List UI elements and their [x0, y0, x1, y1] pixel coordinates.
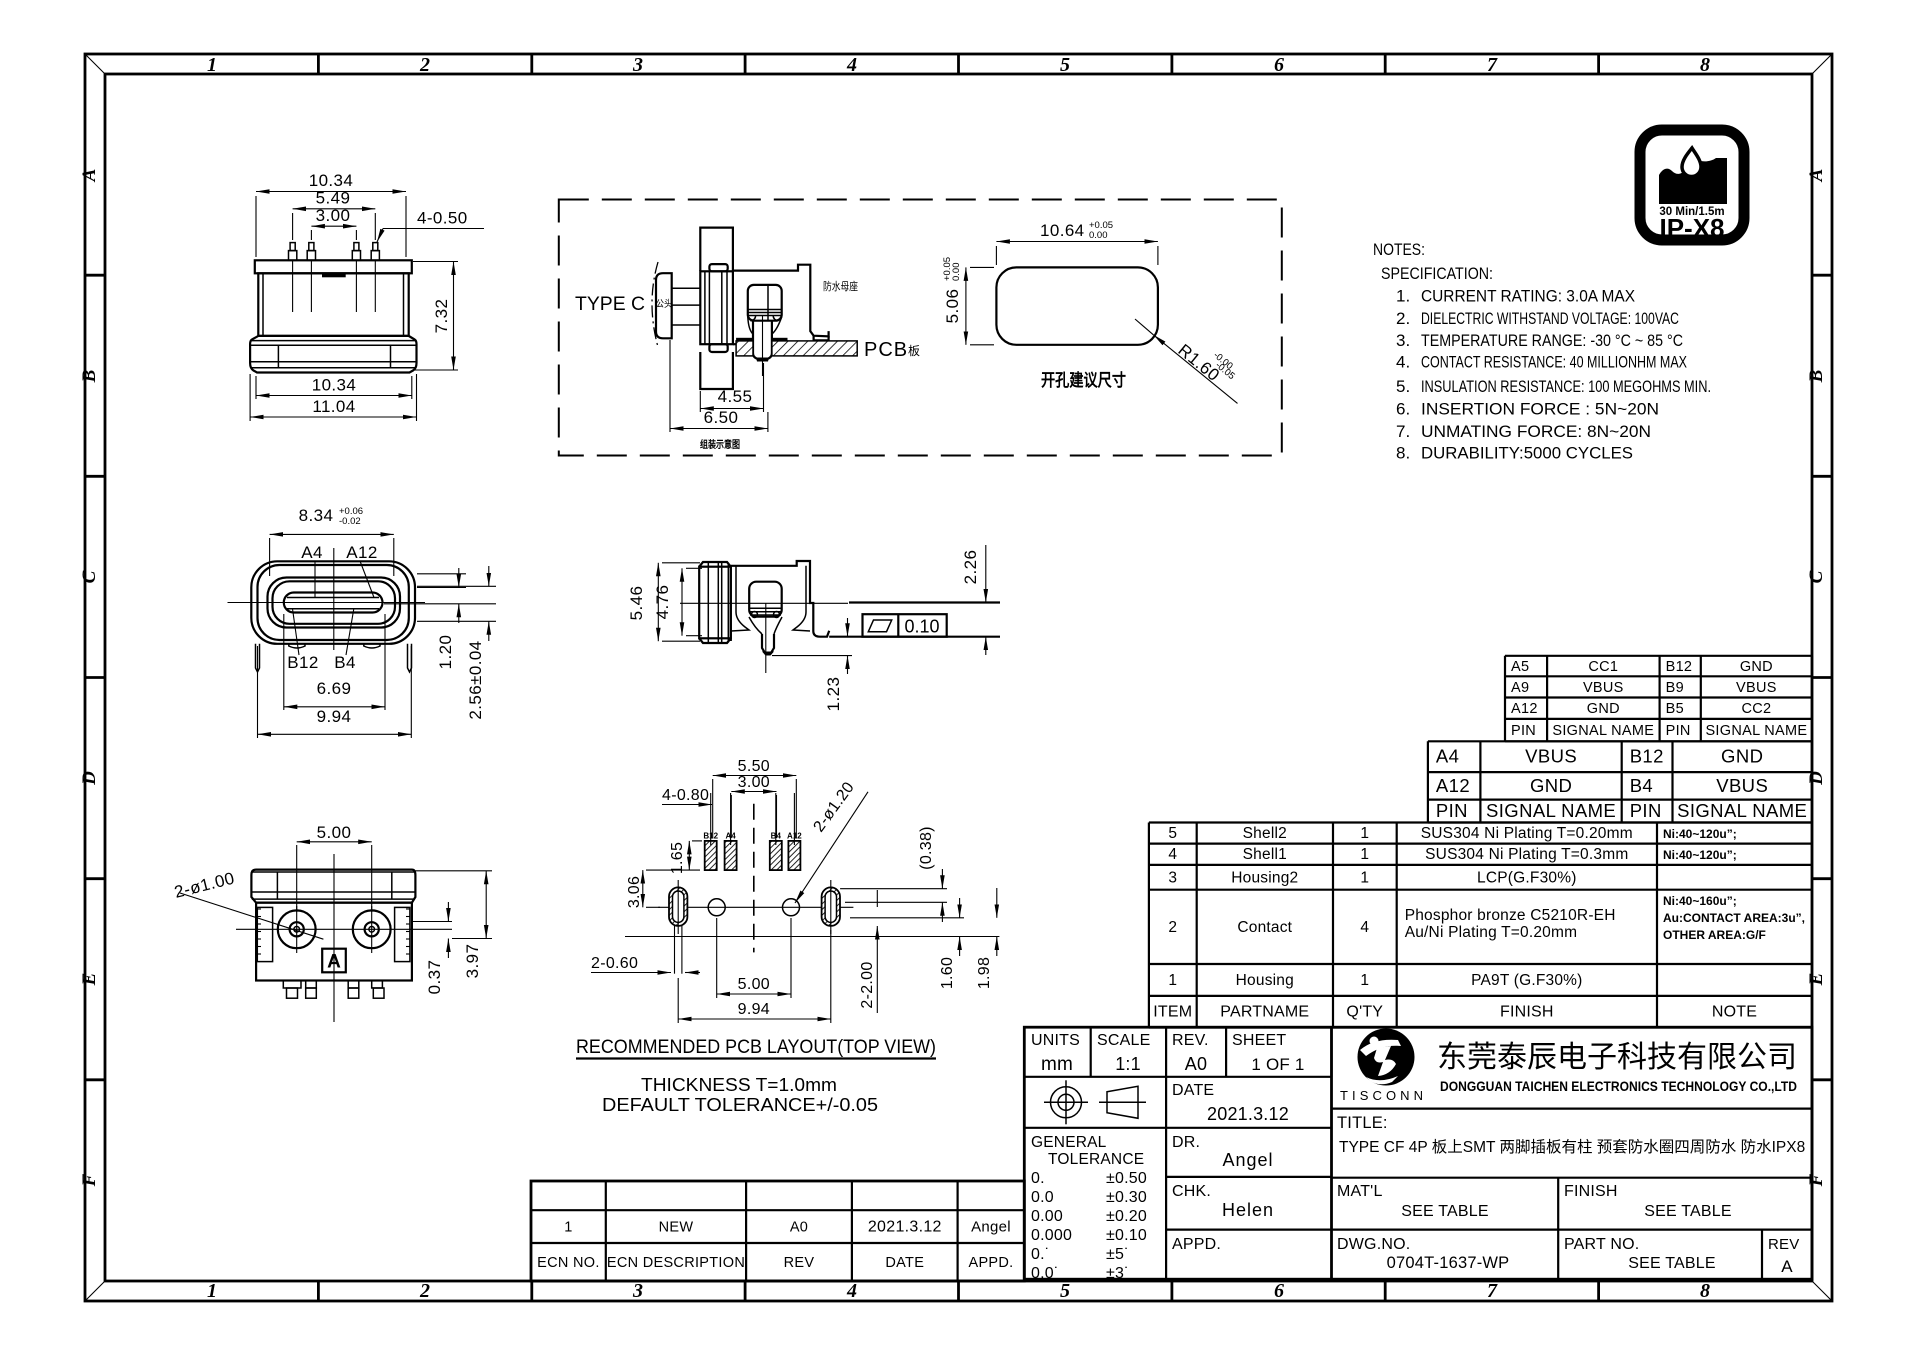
svg-text:B4: B4 — [334, 653, 356, 672]
svg-text:A12: A12 — [1511, 701, 1538, 717]
svg-text:CONTACT RESISTANCE: 40 MILLION: CONTACT RESISTANCE: 40 MILLIONHM MAX — [1421, 353, 1687, 372]
svg-text:NEW: NEW — [659, 1220, 694, 1236]
svg-text:5.: 5. — [1396, 377, 1410, 396]
svg-text:F: F — [1806, 1173, 1827, 1187]
svg-text:REV: REV — [1768, 1236, 1799, 1253]
svg-text:±3˙: ±3˙ — [1106, 1265, 1130, 1282]
view: assembly section (TYPE C plug + waterproof receptacle + PCB) — [559, 200, 1282, 456]
svg-text:5.50: 5.50 — [738, 758, 770, 775]
svg-text:DATE: DATE — [1172, 1082, 1214, 1099]
svg-text:3.00: 3.00 — [738, 774, 770, 791]
svg-text:4.55: 4.55 — [718, 387, 753, 406]
svg-text:1: 1 — [1360, 972, 1369, 989]
svg-text:0.00: 0.00 — [951, 263, 962, 282]
svg-text:DIELECTRIC WITHSTAND VOLTAGE:: DIELECTRIC WITHSTAND VOLTAGE: 100VAC — [1421, 309, 1679, 328]
svg-text:PIN: PIN — [1511, 723, 1536, 739]
svg-text:Ni:40~120u”;: Ni:40~120u”; — [1663, 827, 1737, 841]
svg-text:GND: GND — [1740, 659, 1773, 675]
svg-text:SCALE: SCALE — [1097, 1032, 1150, 1049]
svg-text:ECN DESCRIPTION: ECN DESCRIPTION — [607, 1255, 745, 1271]
svg-text:D: D — [79, 771, 100, 786]
svg-text:4: 4 — [1168, 846, 1177, 863]
svg-text:2-0.60: 2-0.60 — [591, 955, 638, 972]
svg-text:0704T-1637-WP: 0704T-1637-WP — [1387, 1254, 1510, 1272]
svg-text:±5˙: ±5˙ — [1106, 1246, 1130, 1263]
svg-text:7.: 7. — [1396, 422, 1410, 441]
svg-text:DEFAULT TOLERANCE+/-0.05: DEFAULT TOLERANCE+/-0.05 — [602, 1095, 878, 1115]
svg-text:4.: 4. — [1396, 353, 1410, 372]
svg-text:板: 板 — [908, 344, 920, 358]
svg-text:TEMPERATURE RANGE: -30 °C ~ 85: TEMPERATURE RANGE: -30 °C ~ 85 °C — [1421, 331, 1683, 350]
svg-text:B5: B5 — [1666, 701, 1684, 717]
svg-text:4: 4 — [1360, 919, 1369, 936]
svg-text:RECOMMENDED PCB LAYOUT(TOP: RECOMMENDED PCB LAYOUT(TOP VIEW) — [576, 1037, 936, 1058]
svg-text:DONGGUAN TAICHEN ELECTRONICS: DONGGUAN TAICHEN ELECTRONICS TECHNOLOGY … — [1440, 1079, 1797, 1094]
svg-text:3.06: 3.06 — [626, 876, 643, 908]
svg-text:0.37: 0.37 — [425, 960, 444, 995]
svg-text:8: 8 — [1700, 1280, 1710, 1302]
svg-text:B12: B12 — [1630, 746, 1664, 767]
svg-text:7: 7 — [1487, 1280, 1498, 1302]
notes specification text — [1373, 240, 1711, 462]
svg-text:VBUS: VBUS — [1583, 680, 1624, 696]
pin signal tables — [1428, 656, 1812, 823]
svg-text:APPD.: APPD. — [1172, 1236, 1221, 1253]
svg-text:10.64: 10.64 — [1040, 221, 1085, 240]
view: panel cut-out hole dimensions — [942, 220, 1238, 403]
svg-text:6: 6 — [1274, 1280, 1284, 1302]
svg-text:GND: GND — [1587, 701, 1620, 717]
svg-text:8.34: 8.34 — [299, 506, 334, 525]
svg-text:Housing2: Housing2 — [1231, 869, 1298, 886]
svg-text:SEE TABLE: SEE TABLE — [1644, 1203, 1731, 1220]
svg-text:5.06: 5.06 — [943, 289, 962, 324]
svg-text:1.98: 1.98 — [976, 957, 993, 989]
svg-text:VBUS: VBUS — [1525, 746, 1577, 767]
svg-text:SIGNAL NAME: SIGNAL NAME — [1677, 800, 1807, 821]
svg-text:9.94: 9.94 — [317, 707, 352, 726]
svg-text:CHK.: CHK. — [1172, 1183, 1211, 1200]
svg-text:CURRENT RATING: 3.0A MAX: CURRENT RATING: 3.0A MAX — [1421, 287, 1635, 306]
svg-text:5: 5 — [1168, 825, 1177, 842]
svg-text:A4: A4 — [1436, 746, 1459, 767]
svg-text:PCB: PCB — [864, 339, 908, 361]
svg-text:±0.50: ±0.50 — [1106, 1170, 1147, 1187]
svg-text:3: 3 — [632, 54, 643, 76]
svg-text:SEE TABLE: SEE TABLE — [1628, 1255, 1715, 1272]
svg-text:6.69: 6.69 — [317, 679, 352, 698]
svg-text:ECN NO.: ECN NO. — [537, 1255, 600, 1271]
svg-text:E: E — [1806, 973, 1827, 987]
svg-text:A: A — [1806, 169, 1827, 183]
svg-text:0.0˙: 0.0˙ — [1031, 1265, 1059, 1282]
svg-text:DURABILITY:5000 CYCLES: DURABILITY:5000 CYCLES — [1421, 443, 1633, 462]
svg-text:REV: REV — [784, 1255, 815, 1271]
svg-text:A0: A0 — [790, 1220, 808, 1236]
IP-X8 waterproof icon — [1640, 130, 1744, 243]
svg-text:LCP(G.F30%): LCP(G.F30%) — [1477, 869, 1577, 886]
svg-text:C: C — [79, 570, 100, 583]
svg-text:SEE TABLE: SEE TABLE — [1401, 1203, 1488, 1220]
svg-text:0.˙: 0.˙ — [1031, 1246, 1050, 1263]
svg-text:A4: A4 — [301, 543, 323, 562]
svg-text:防水母座: 防水母座 — [823, 279, 858, 293]
svg-text:APPD.: APPD. — [968, 1255, 1013, 1271]
svg-text:CC1: CC1 — [1588, 659, 1618, 675]
svg-text:1.20: 1.20 — [436, 635, 455, 670]
svg-text:CC2: CC2 — [1741, 701, 1771, 717]
svg-text:组装示意图: 组装示意图 — [700, 438, 740, 451]
svg-text:F: F — [79, 1173, 100, 1187]
svg-text:PART NO.: PART NO. — [1564, 1236, 1639, 1253]
svg-text:±0.10: ±0.10 — [1106, 1227, 1147, 1244]
TISCONN company logo — [1340, 1029, 1797, 1104]
svg-text:2021.3.12: 2021.3.12 — [868, 1219, 942, 1236]
svg-text:0.00: 0.00 — [1089, 230, 1108, 241]
svg-text:4.76: 4.76 — [653, 585, 672, 620]
svg-text:1.60: 1.60 — [939, 957, 956, 989]
svg-text:A: A — [79, 169, 100, 183]
svg-text:B: B — [1806, 370, 1827, 384]
svg-text:DR.: DR. — [1172, 1134, 1200, 1151]
svg-text:1: 1 — [207, 54, 217, 76]
svg-text:DWG.NO.: DWG.NO. — [1337, 1236, 1410, 1253]
svg-text:Phosphor bronze C5210R-EH: Phosphor bronze C5210R-EH — [1405, 907, 1616, 924]
svg-text:INSERTION FORCE : 5N~20N: INSERTION FORCE : 5N~20N — [1421, 400, 1659, 419]
svg-text:A9: A9 — [1511, 680, 1529, 696]
svg-text:Housing: Housing — [1236, 972, 1294, 989]
svg-text:Ni:40~160u”;: Ni:40~160u”; — [1663, 894, 1737, 908]
svg-text:FINISH: FINISH — [1564, 1183, 1618, 1200]
svg-text:VBUS: VBUS — [1736, 680, 1777, 696]
svg-text:0.000: 0.000 — [1031, 1227, 1072, 1244]
svg-text:1: 1 — [564, 1220, 572, 1236]
svg-text:1: 1 — [1360, 825, 1369, 842]
svg-text:Ni:40~120u”;: Ni:40~120u”; — [1663, 848, 1737, 862]
svg-text:A: A — [327, 952, 341, 973]
svg-text:TYPE CF 4P 板上SMT 两脚插板有柱 预套防水圈四: TYPE CF 4P 板上SMT 两脚插板有柱 预套防水圈四周防水 防水IPX8 — [1339, 1138, 1805, 1156]
svg-text:A12: A12 — [1436, 775, 1470, 796]
svg-text:东莞泰辰电子科技有限公司: 东莞泰辰电子科技有限公司 — [1437, 1041, 1797, 1074]
svg-text:3.00: 3.00 — [316, 206, 351, 225]
svg-text:GND: GND — [1721, 746, 1763, 767]
svg-text:PIN: PIN — [1666, 723, 1691, 739]
svg-text:2-2.00: 2-2.00 — [859, 961, 876, 1008]
svg-text:(0.38): (0.38) — [918, 826, 935, 870]
svg-text:C: C — [1806, 570, 1827, 583]
svg-text:GND: GND — [1530, 775, 1572, 796]
svg-text:±0.20: ±0.20 — [1106, 1208, 1147, 1225]
svg-text:Au:CONTACT AREA:3u”,: Au:CONTACT AREA:3u”, — [1663, 911, 1805, 925]
svg-text:8.: 8. — [1396, 443, 1410, 462]
svg-text:2.56±0.04: 2.56±0.04 — [466, 640, 485, 719]
svg-text:5.46: 5.46 — [627, 586, 646, 621]
ECN revision table — [531, 1181, 1024, 1281]
svg-text:4: 4 — [846, 54, 857, 76]
svg-text:10.34: 10.34 — [312, 376, 357, 395]
svg-text:A5: A5 — [1511, 659, 1529, 675]
svg-text:DATE: DATE — [885, 1255, 924, 1271]
svg-text:B9: B9 — [1666, 680, 1684, 696]
svg-text:TYPE C: TYPE C — [575, 294, 645, 315]
svg-text:PIN: PIN — [1630, 800, 1662, 821]
svg-text:3: 3 — [632, 1280, 643, 1302]
svg-text:1: 1 — [1360, 869, 1369, 886]
svg-text:Angel: Angel — [1222, 1150, 1273, 1170]
svg-text:1.23: 1.23 — [824, 677, 843, 712]
svg-text:2.: 2. — [1396, 309, 1410, 328]
svg-text:0.00: 0.00 — [1031, 1208, 1063, 1225]
svg-text:Shell1: Shell1 — [1243, 846, 1287, 863]
svg-text:11.04: 11.04 — [312, 397, 355, 416]
svg-text:PARTNAME: PARTNAME — [1220, 1004, 1309, 1021]
svg-text:Helen: Helen — [1222, 1200, 1274, 1220]
svg-text:TOLERANCE: TOLERANCE — [1048, 1151, 1144, 1168]
svg-text:NOTES:: NOTES: — [1373, 240, 1425, 259]
svg-text:4-0.80: 4-0.80 — [662, 787, 709, 804]
svg-text:6: 6 — [1274, 54, 1284, 76]
svg-text:SPECIFICATION:: SPECIFICATION: — [1381, 264, 1493, 283]
svg-text:UNITS: UNITS — [1031, 1032, 1080, 1049]
svg-text:TITLE:: TITLE: — [1337, 1114, 1388, 1132]
svg-text:0.0: 0.0 — [1031, 1189, 1054, 1206]
view: bottom view with locating posts — [172, 823, 492, 1022]
svg-text:10.34: 10.34 — [309, 171, 354, 190]
svg-text:SUS304 Ni Plating T=0.20m: SUS304 Ni Plating T=0.20mm — [1421, 825, 1633, 842]
svg-text:1 OF 1: 1 OF 1 — [1251, 1055, 1304, 1074]
svg-text:2: 2 — [419, 1280, 430, 1302]
svg-text:7: 7 — [1487, 54, 1498, 76]
svg-text:5: 5 — [1060, 1280, 1070, 1302]
svg-text:5: 5 — [1060, 54, 1070, 76]
svg-text:PIN: PIN — [1436, 800, 1468, 821]
svg-text:SIGNAL NAME: SIGNAL NAME — [1705, 723, 1807, 739]
svg-text:2021.3.12: 2021.3.12 — [1207, 1104, 1289, 1124]
svg-text:5.00: 5.00 — [317, 823, 352, 842]
svg-text:A: A — [1781, 1257, 1793, 1276]
svg-text:8: 8 — [1700, 54, 1710, 76]
svg-text:1: 1 — [1168, 972, 1177, 989]
view: front elevation of connector — [250, 171, 484, 421]
svg-text:B: B — [79, 370, 100, 384]
svg-text:B12: B12 — [287, 653, 318, 672]
svg-text:GENERAL: GENERAL — [1031, 1134, 1107, 1151]
svg-text:2.26: 2.26 — [961, 550, 980, 585]
svg-text:4: 4 — [846, 1280, 857, 1302]
svg-text:3.97: 3.97 — [463, 944, 482, 979]
svg-text:mm: mm — [1041, 1054, 1073, 1075]
svg-text:INSULATION RESISTANCE: 100 MEG: INSULATION RESISTANCE: 100 MEGOHMS MIN. — [1421, 377, 1711, 396]
svg-text:0.: 0. — [1031, 1170, 1045, 1187]
svg-text:FINISH: FINISH — [1500, 1004, 1554, 1021]
svg-text:5.00: 5.00 — [738, 976, 770, 993]
svg-text:THICKNESS T=1.0mm: THICKNESS T=1.0mm — [641, 1075, 837, 1095]
svg-text:SIGNAL NAME: SIGNAL NAME — [1486, 800, 1616, 821]
svg-text:Q'TY: Q'TY — [1346, 1004, 1383, 1021]
title block — [1024, 1027, 1812, 1282]
svg-text:Shell2: Shell2 — [1243, 825, 1287, 842]
svg-text:PA9T (G.F30%): PA9T (G.F30%) — [1471, 972, 1582, 989]
svg-text:公头: 公头 — [656, 298, 672, 310]
svg-text:SIGNAL NAME: SIGNAL NAME — [1552, 723, 1654, 739]
svg-text:Contact: Contact — [1237, 919, 1292, 936]
svg-text:-0.02: -0.02 — [339, 516, 361, 527]
svg-text:4-0.50: 4-0.50 — [417, 209, 468, 228]
svg-text:A12: A12 — [346, 543, 377, 562]
svg-text:9.94: 9.94 — [738, 1001, 770, 1018]
svg-text:SHEET: SHEET — [1232, 1032, 1286, 1049]
parts list table — [1149, 823, 1812, 1028]
svg-text:ITEM: ITEM — [1153, 1004, 1192, 1021]
svg-text:SUS304 Ni Plating T=0.3mm: SUS304 Ni Plating T=0.3mm — [1425, 846, 1628, 863]
svg-text:0.10: 0.10 — [904, 617, 939, 637]
svg-text:IP-X8: IP-X8 — [1659, 213, 1724, 243]
svg-text:3: 3 — [1168, 869, 1177, 886]
svg-text:1: 1 — [1360, 846, 1369, 863]
svg-text:±0.30: ±0.30 — [1106, 1189, 1147, 1206]
svg-text:REV.: REV. — [1172, 1032, 1209, 1049]
svg-text:TISCONN: TISCONN — [1340, 1088, 1430, 1103]
svg-text:MAT'L: MAT'L — [1337, 1183, 1383, 1200]
view: side profile with seating plane — [627, 545, 1000, 711]
svg-text:NOTE: NOTE — [1712, 1004, 1757, 1021]
svg-text:6.50: 6.50 — [704, 408, 739, 427]
svg-text:1:1: 1:1 — [1115, 1054, 1141, 1074]
svg-text:1.65: 1.65 — [669, 842, 686, 874]
svg-text:2: 2 — [419, 54, 430, 76]
svg-text:B4: B4 — [1630, 775, 1653, 796]
svg-text:Au/Ni Plating T=0.20mm: Au/Ni Plating T=0.20mm — [1405, 924, 1578, 941]
svg-text:3.: 3. — [1396, 331, 1410, 350]
svg-text:E: E — [79, 973, 100, 987]
svg-text:6.: 6. — [1396, 400, 1410, 419]
svg-text:5.49: 5.49 — [316, 189, 351, 208]
view: recommended PCB layout — [576, 758, 999, 1115]
svg-text:1.: 1. — [1396, 287, 1410, 306]
svg-text:OTHER AREA:G/F: OTHER AREA:G/F — [1663, 928, 1766, 942]
view: mating face (USB-C stadium) with pin callouts — [228, 506, 497, 738]
svg-text:7.32: 7.32 — [432, 299, 451, 334]
svg-text:A0: A0 — [1185, 1054, 1207, 1074]
svg-text:2: 2 — [1168, 919, 1177, 936]
svg-text:VBUS: VBUS — [1716, 775, 1768, 796]
svg-text:UNMATING FORCE: 8N~20N: UNMATING FORCE: 8N~20N — [1421, 422, 1651, 441]
svg-text:Angel: Angel — [971, 1219, 1011, 1236]
svg-text:开孔建议尺寸: 开孔建议尺寸 — [1041, 370, 1126, 390]
svg-text:1: 1 — [207, 1280, 217, 1302]
svg-text:B12: B12 — [1666, 659, 1693, 675]
